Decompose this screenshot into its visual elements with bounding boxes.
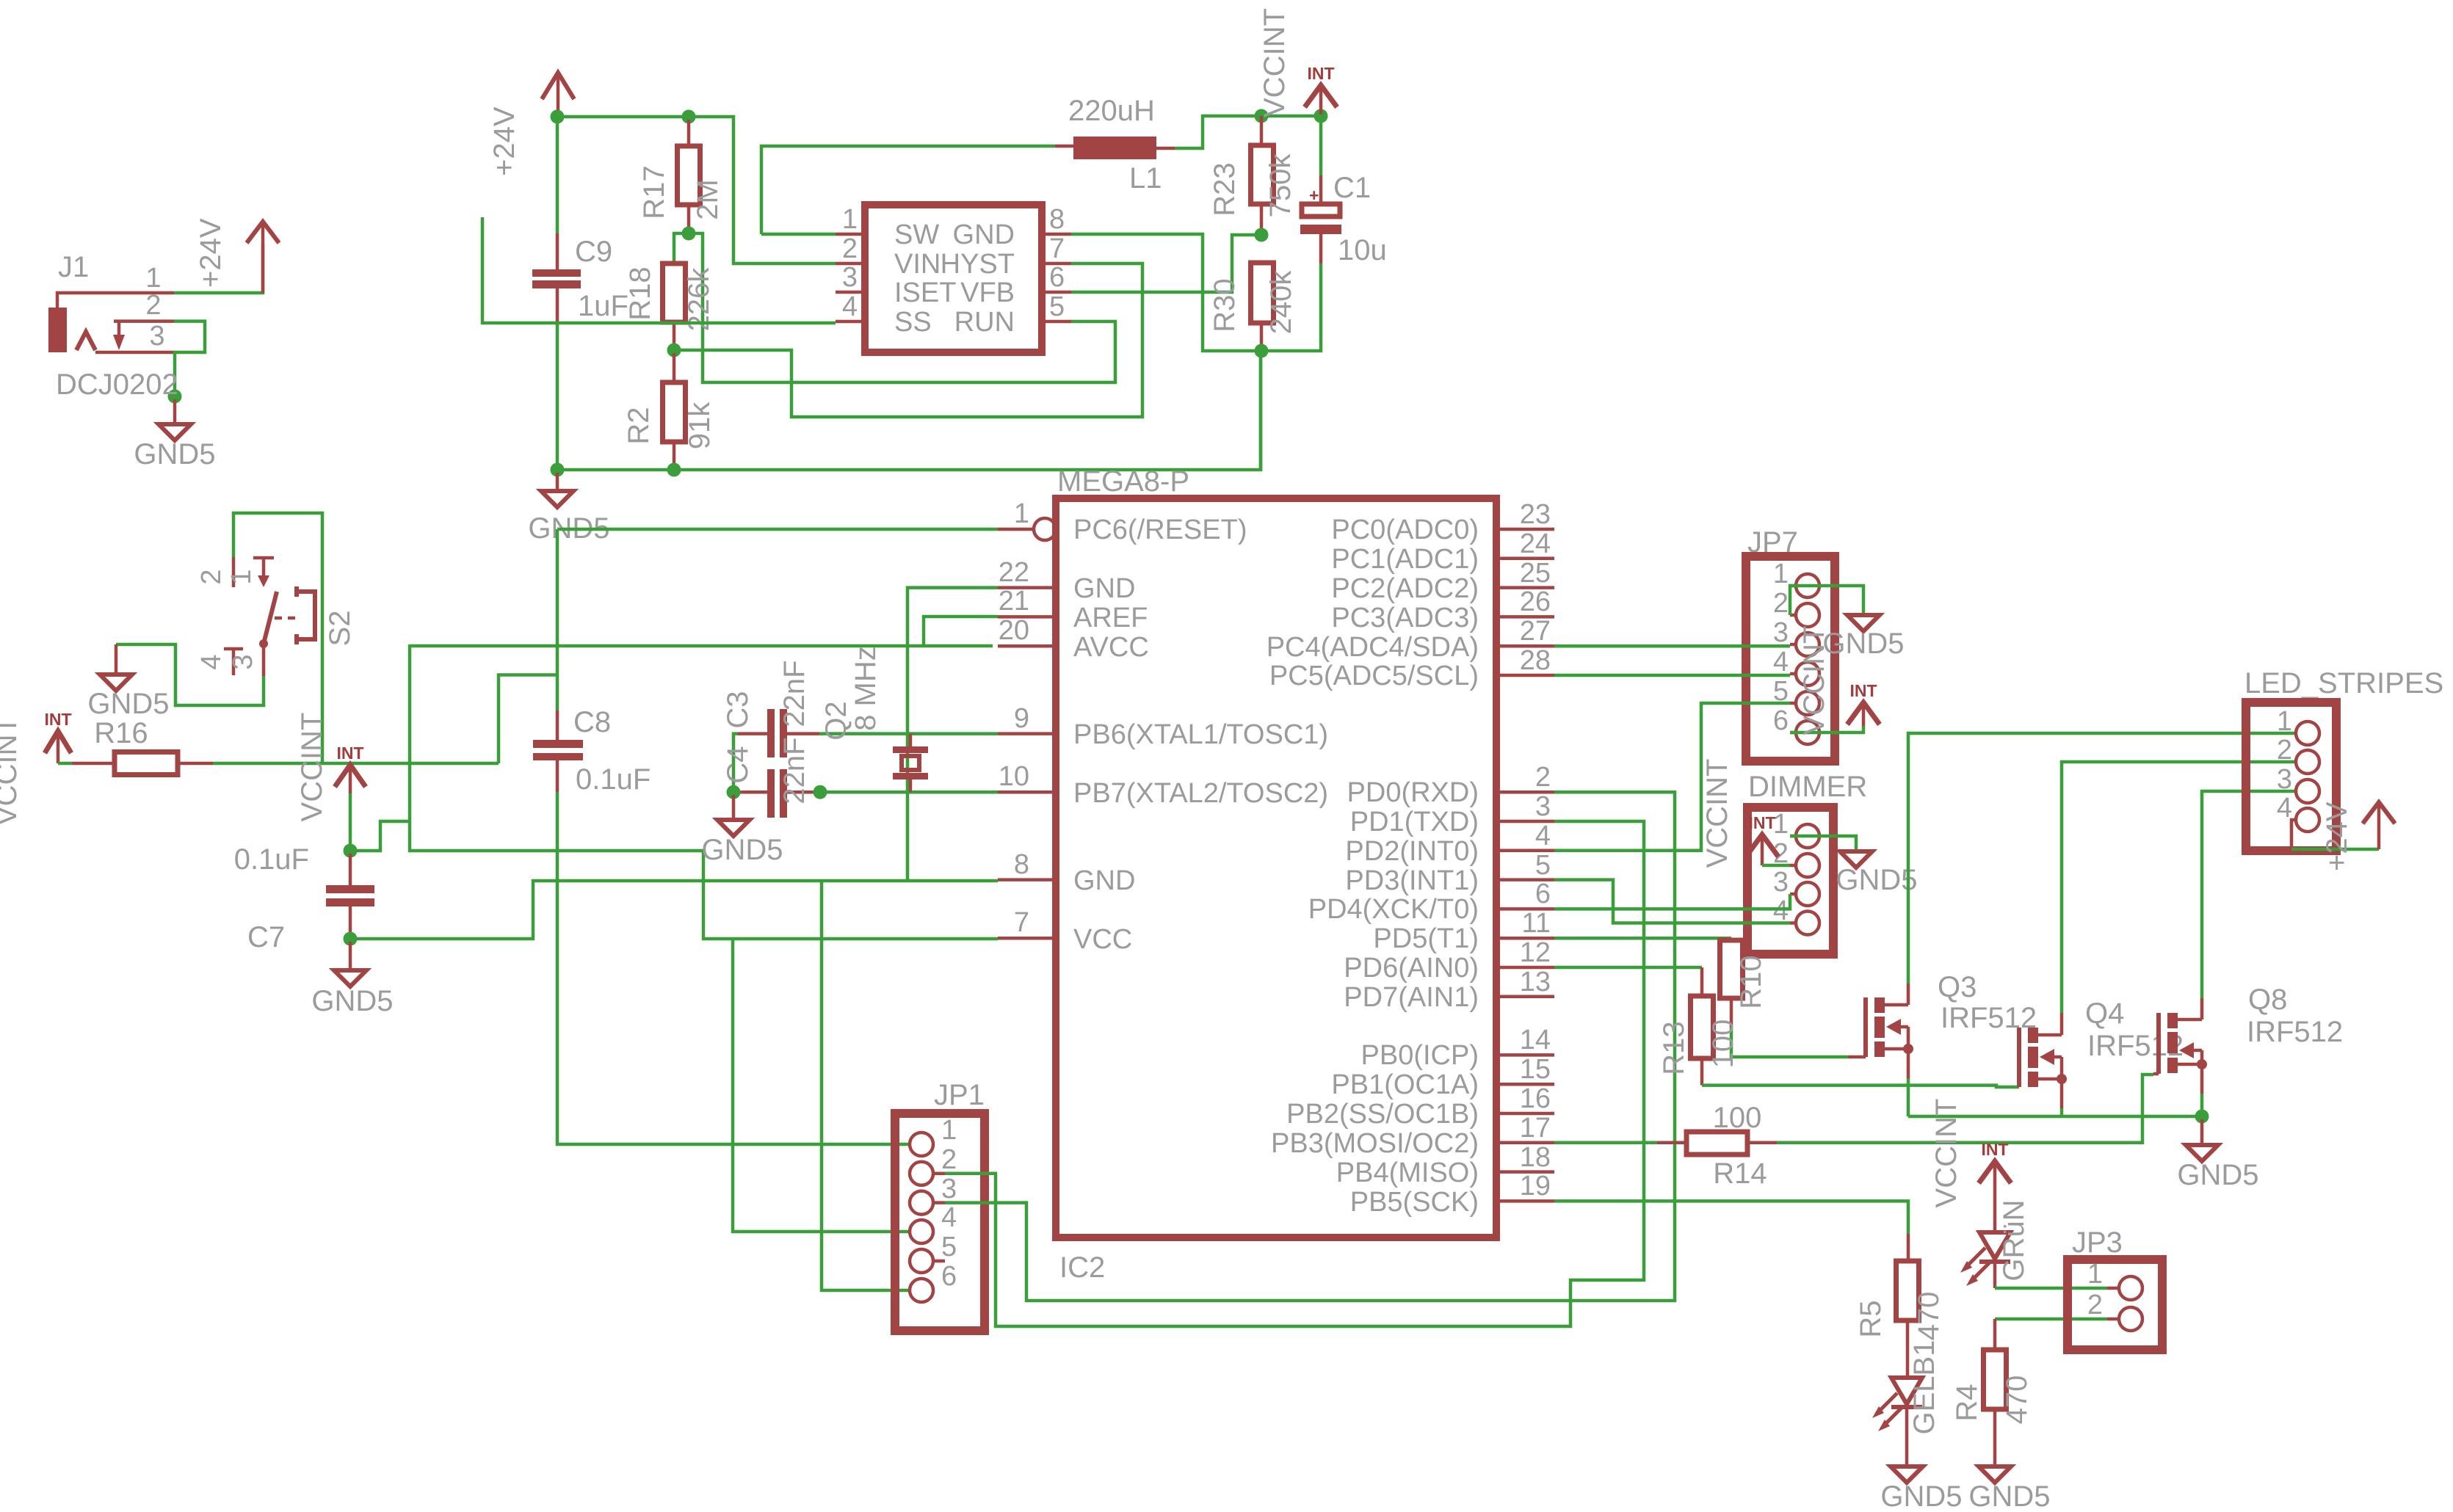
- wire DIMMER pin1 to GND5: [1790, 836, 1856, 851]
- pin 4 of DIMMER: [1796, 912, 1819, 935]
- node junction R30 bottom: [1255, 344, 1269, 358]
- svg-text:PD0(RXD): PD0(RXD): [1347, 777, 1479, 808]
- wire ground rail: [557, 351, 1261, 470]
- svg-text:PD4(XCK/T0): PD4(XCK/T0): [1308, 894, 1479, 925]
- svg-text:PB5(SCK): PB5(SCK): [1350, 1187, 1479, 1218]
- wire GND pin22 drop: [907, 588, 998, 881]
- svg-text:PD1(TXD): PD1(TXD): [1350, 807, 1479, 837]
- svg-text:9: 9: [1014, 703, 1029, 734]
- wire regulator gnd down to MEGA8 area: [1259, 354, 1263, 470]
- svg-text:2: 2: [1773, 588, 1789, 619]
- svg-text:470: 470: [1913, 1292, 1945, 1341]
- svg-text:R17: R17: [638, 165, 670, 219]
- regulator pin 8 GND: [1042, 233, 1071, 236]
- supply VCCINT (R16 left): [45, 731, 71, 753]
- regulator pin 6 VFB: [1042, 291, 1071, 294]
- svg-text:24: 24: [1520, 528, 1551, 559]
- connector DIMMER box: [1747, 807, 1833, 954]
- svg-text:470: 470: [2001, 1375, 2033, 1425]
- svg-text:C3: C3: [722, 691, 754, 728]
- svg-text:PB3(MOSI/OC2): PB3(MOSI/OC2): [1271, 1128, 1479, 1159]
- svg-text:C7: C7: [247, 921, 285, 953]
- supply VCCINT (GRUEN): [1979, 1161, 2011, 1183]
- pin 2 of LED_STRIPES: [2296, 750, 2319, 774]
- svg-text:VCCINT: VCCINT: [1930, 1099, 1963, 1208]
- svg-text:VCC: VCC: [1073, 924, 1132, 955]
- ground GND5 (GELB): [1891, 1466, 1923, 1483]
- node junction rail/C1: [1314, 109, 1328, 123]
- svg-text:6: 6: [1773, 705, 1789, 736]
- svg-text:IC2: IC2: [1059, 1251, 1105, 1284]
- ground GND5 (R4): [1979, 1466, 2011, 1483]
- wire pin2-pin3 loop: [174, 321, 205, 396]
- svg-text:1: 1: [941, 1115, 957, 1146]
- svg-text:240k: 240k: [1265, 270, 1297, 335]
- regulator pin 2 VIN: [836, 262, 865, 266]
- svg-text:22: 22: [999, 557, 1029, 588]
- svg-text:C4: C4: [722, 746, 754, 783]
- node junction GND: [2195, 1110, 2209, 1124]
- svg-text:IRF512: IRF512: [1941, 1002, 2037, 1034]
- wire Q4 drain to LED_STRIPES pin2: [2060, 1013, 2064, 1035]
- svg-text:12: 12: [1520, 937, 1551, 968]
- pin 2 of JP3: [2119, 1307, 2142, 1331]
- pin 12 PD6: [1496, 966, 1554, 970]
- ground GND5 (JP7): [1847, 615, 1880, 631]
- resistor R18: [663, 263, 686, 322]
- svg-text:2: 2: [1535, 762, 1551, 793]
- capacitor C1: [1319, 117, 1323, 175]
- wire C3 left down: [733, 734, 738, 793]
- transistor Q4 IRF512: [2017, 1028, 2021, 1087]
- svg-text:22nF: 22nF: [778, 660, 811, 727]
- capacitor C3: [738, 732, 767, 735]
- svg-text:R2: R2: [623, 407, 655, 444]
- pin 10 PB7: [998, 790, 1056, 794]
- pin 14 PB0: [1496, 1053, 1554, 1057]
- svg-text:2: 2: [941, 1144, 957, 1175]
- pin 1 of JP7: [1796, 574, 1819, 597]
- wire JP1 pin2 to PD1: [945, 821, 1644, 1326]
- svg-text:VCCINT: VCCINT: [1258, 8, 1291, 117]
- svg-text:INT: INT: [1849, 681, 1877, 700]
- svg-text:R23: R23: [1209, 162, 1241, 216]
- svg-text:L1: L1: [1129, 162, 1162, 195]
- svg-text:3: 3: [228, 654, 258, 669]
- svg-text:AREF: AREF: [1073, 603, 1148, 633]
- resistor R5: [1907, 1234, 1910, 1261]
- svg-text:GND: GND: [953, 219, 1015, 250]
- svg-text:GND5: GND5: [1968, 1480, 2050, 1512]
- pin 5 of JP7: [1796, 691, 1819, 715]
- svg-text:PC0(ADC0): PC0(ADC0): [1331, 515, 1479, 545]
- svg-text:0.1uF: 0.1uF: [234, 843, 309, 876]
- svg-text:2: 2: [2277, 735, 2292, 766]
- node junction rail/R17: [682, 110, 696, 124]
- pin 23 PC0: [1496, 528, 1554, 531]
- supply VCCINT (top): [1305, 85, 1337, 107]
- svg-text:GND5: GND5: [87, 688, 169, 720]
- svg-text:R5: R5: [1855, 1300, 1887, 1337]
- pin 15 PB1: [1496, 1083, 1554, 1086]
- svg-text:PB0(ICP): PB0(ICP): [1361, 1040, 1479, 1071]
- wire PD5 to R10: [1554, 937, 1731, 940]
- svg-text:6: 6: [941, 1261, 957, 1292]
- supply VCCINT (mid): [335, 765, 366, 787]
- wire PC6 net vertical: [556, 529, 559, 675]
- wire Q8 source to GND junction: [2200, 1064, 2204, 1094]
- svg-text:16: 16: [1520, 1083, 1551, 1114]
- svg-text:VCCINT: VCCINT: [1701, 759, 1733, 868]
- pin 2 PD0: [1496, 790, 1554, 794]
- pin 1 PC6 circle: [998, 528, 1034, 531]
- svg-text:+24V: +24V: [488, 106, 521, 176]
- svg-text:8: 8: [1014, 849, 1029, 880]
- svg-text:100: 100: [1713, 1102, 1762, 1134]
- svg-text:+24V: +24V: [2321, 802, 2353, 871]
- regulator pin 5 RUN: [1042, 320, 1071, 324]
- svg-text:R18: R18: [624, 266, 656, 320]
- resistor R23: [1260, 116, 1264, 145]
- svg-text:R10: R10: [1735, 955, 1767, 1008]
- svg-text:7: 7: [1049, 233, 1065, 264]
- wire R13 to Q4 gate: [1702, 1086, 2019, 1087]
- svg-text:DIMMER: DIMMER: [1748, 771, 1867, 803]
- svg-text:2: 2: [842, 233, 858, 264]
- ground GND5 (rail): [556, 473, 559, 491]
- J1 pin 2: [114, 319, 174, 323]
- svg-text:3: 3: [1535, 791, 1551, 822]
- resistor R16: [58, 762, 72, 766]
- svg-text:28: 28: [1520, 645, 1551, 676]
- pin 25 PC2: [1496, 586, 1554, 589]
- pin 5 PD3: [1496, 878, 1554, 882]
- pin 8 GND: [998, 878, 1056, 882]
- svg-text:GND: GND: [1073, 865, 1135, 896]
- IC U IC2 box: [1056, 498, 1496, 1237]
- svg-text:PC4(ADC4/SDA): PC4(ADC4/SDA): [1267, 632, 1479, 663]
- connector JP1 box: [895, 1113, 985, 1331]
- wire PD2 to JP7 pin5: [1554, 703, 1790, 851]
- svg-text:11: 11: [1522, 908, 1551, 939]
- svg-text:91k: 91k: [684, 401, 716, 449]
- wire JP1 pin3 to PD0: [945, 792, 1675, 1301]
- svg-text:3: 3: [149, 321, 164, 352]
- svg-text:PD3(INT1): PD3(INT1): [1345, 865, 1479, 896]
- node junction C4 right: [814, 785, 827, 799]
- pin 3 of DIMMER: [1796, 882, 1819, 906]
- regulator pin 7 HYST: [1042, 262, 1071, 266]
- pin 1 of LED_STRIPES: [2296, 722, 2319, 745]
- pin 4 of JP7: [1796, 662, 1819, 686]
- wire PB7 row: [816, 790, 998, 794]
- pin 6 of JP7: [1796, 721, 1819, 744]
- pin 2 of DIMMER: [1796, 854, 1819, 877]
- svg-text:+24V: +24V: [195, 218, 227, 288]
- svg-text:PB4(MISO): PB4(MISO): [1336, 1157, 1479, 1188]
- svg-text:SW: SW: [894, 219, 939, 250]
- supply +24V (C9 rail): [542, 73, 574, 99]
- svg-text:PC1(ADC1): PC1(ADC1): [1331, 544, 1479, 575]
- pin 9 PB6: [998, 732, 1056, 735]
- supply VCCINT (DIMMER pin2): [1746, 835, 1778, 857]
- svg-text:HYST: HYST: [941, 249, 1015, 280]
- svg-text:R13: R13: [1658, 1021, 1690, 1075]
- svg-text:8: 8: [1049, 204, 1065, 235]
- wire C9 bottom to ground rail: [556, 323, 559, 470]
- supply +24V (LED_STRIPES): [2363, 802, 2395, 824]
- pin 19 PB5: [1496, 1199, 1554, 1203]
- wire pin4 to +24V: [2291, 820, 2296, 849]
- svg-text:2M: 2M: [692, 179, 724, 220]
- pin 1 of JP3: [2119, 1276, 2142, 1300]
- svg-text:GND: GND: [1073, 573, 1135, 604]
- svg-text:4: 4: [842, 291, 858, 322]
- wire Q4 source to GND: [2060, 1079, 2064, 1108]
- node junction rail/R23: [1255, 109, 1269, 123]
- svg-text:GELB1: GELB1: [1908, 1340, 1941, 1435]
- svg-text:27: 27: [1520, 616, 1551, 647]
- svg-text:Q3: Q3: [1938, 971, 1976, 1003]
- svg-text:JP3: JP3: [2072, 1226, 2123, 1259]
- pin 6 PD4: [1496, 907, 1554, 911]
- wire Q3 source to GND: [1907, 1049, 1910, 1078]
- svg-text:10: 10: [999, 761, 1029, 792]
- svg-text:1: 1: [842, 204, 858, 235]
- wire VFB pin6: [1071, 235, 1261, 292]
- node junction C7 top: [344, 844, 358, 858]
- svg-text:GND5: GND5: [2177, 1159, 2258, 1191]
- pin 16 PB2: [1496, 1112, 1554, 1116]
- pin 5 of JP1: [910, 1249, 933, 1273]
- wire L1 to VCCINT rail: [1175, 116, 1321, 148]
- svg-text:19: 19: [1520, 1171, 1551, 1202]
- svg-text:INT: INT: [1748, 813, 1775, 832]
- wire GND bus: [1908, 1115, 2202, 1119]
- wire R18/R2 node to HYST: [674, 263, 1142, 417]
- svg-text:21: 21: [999, 586, 1029, 617]
- svg-text:PD6(AIN0): PD6(AIN0): [1344, 953, 1479, 984]
- svg-text:2: 2: [196, 569, 227, 584]
- svg-text:PD7(AIN1): PD7(AIN1): [1344, 982, 1479, 1013]
- wire PD4 to DIMMER pin3: [1554, 894, 1790, 909]
- capacitor C4: [738, 790, 767, 794]
- svg-text:1: 1: [145, 263, 161, 294]
- wire R17-R18 jog: [674, 233, 689, 263]
- svg-text:INT: INT: [44, 710, 71, 729]
- svg-text:2: 2: [2087, 1290, 2103, 1320]
- svg-text:2: 2: [145, 290, 161, 321]
- svg-text:R16: R16: [94, 717, 148, 749]
- wire PD6 to R13: [1554, 966, 1702, 970]
- wire R10 to Q3 gate: [1731, 1027, 1848, 1057]
- connector J1 body: [48, 308, 67, 352]
- svg-text:3: 3: [1773, 617, 1789, 648]
- supply +24V (J1): [247, 222, 279, 243]
- svg-text:JP1: JP1: [934, 1079, 985, 1111]
- svg-text:13: 13: [1520, 967, 1551, 997]
- capacitor C8: [556, 675, 559, 711]
- resistor R10: [1730, 938, 1733, 940]
- svg-text:VCCINT: VCCINT: [0, 716, 23, 826]
- svg-text:26: 26: [1520, 586, 1551, 617]
- supply VCCINT (JP7 pin6): [1790, 726, 1863, 733]
- pin 1 of JP1: [910, 1133, 933, 1156]
- regulator pin 1 SW: [836, 233, 865, 236]
- svg-text:VCCINT: VCCINT: [1798, 626, 1830, 735]
- regulator pin 3 ISET: [836, 291, 865, 294]
- pin 7 VCC: [998, 937, 1056, 940]
- pin 20 AVCC: [998, 644, 1056, 648]
- wire AREF jog: [924, 617, 998, 646]
- pin 6 of JP1: [910, 1279, 933, 1302]
- svg-text:GND5: GND5: [701, 834, 783, 866]
- wire JP7 pin1+2 to GND5: [1790, 586, 1863, 615]
- node junction gnd/R2: [667, 463, 681, 477]
- inductor L1: [1055, 145, 1073, 148]
- svg-text:R4: R4: [1951, 1384, 1983, 1421]
- transistor Q8 IRF512: [2156, 1013, 2161, 1074]
- wire +24V rail: [557, 117, 836, 263]
- pin 1 of DIMMER: [1796, 824, 1819, 848]
- wire AVCC column: [410, 644, 998, 939]
- svg-text:LED_STRIPES: LED_STRIPES: [2244, 667, 2443, 699]
- wire GND drop to JP1 pin6: [822, 881, 910, 1290]
- LED GRUEN: [1979, 1232, 2010, 1259]
- svg-text:PB7(XTAL2/TOSC2): PB7(XTAL2/TOSC2): [1073, 778, 1328, 809]
- node junction C3/C4 left: [727, 785, 741, 799]
- pin 21 AREF: [998, 615, 1056, 619]
- pin 27 PC4: [1496, 644, 1554, 648]
- node junction rail/C9: [551, 110, 565, 124]
- J1 pin 1: [57, 293, 174, 309]
- svg-text:PC6(/RESET): PC6(/RESET): [1073, 515, 1247, 545]
- svg-text:PD2(INT0): PD2(INT0): [1345, 836, 1479, 867]
- svg-text:5: 5: [1535, 850, 1551, 881]
- svg-text:23: 23: [1520, 499, 1551, 530]
- pin 4 of LED_STRIPES: [2296, 808, 2319, 832]
- pin 13 PD7: [1496, 995, 1554, 999]
- svg-text:25: 25: [1520, 558, 1551, 589]
- wire PB3 to R14: [1554, 1141, 1657, 1145]
- wire PC4 to JP7 pin3: [1554, 644, 1790, 648]
- ground GND5 (C7): [349, 942, 352, 970]
- svg-text:GRüN: GRüN: [1998, 1199, 2030, 1281]
- svg-text:S2: S2: [324, 611, 356, 647]
- capacitor C7: [349, 854, 352, 885]
- svg-text:GND5: GND5: [134, 438, 215, 470]
- svg-text:4: 4: [941, 1202, 957, 1233]
- svg-text:10u: 10u: [1338, 234, 1387, 266]
- resistor R14: [1657, 1141, 1686, 1145]
- svg-text:PB1(OC1A): PB1(OC1A): [1331, 1069, 1479, 1100]
- svg-text:INT: INT: [336, 744, 363, 763]
- resistor R4: [1984, 1350, 2007, 1409]
- resistor R17: [687, 120, 691, 146]
- wire C9 top: [556, 120, 559, 233]
- svg-text:1: 1: [2087, 1259, 2103, 1290]
- svg-text:PB6(XTAL1/TOSC1): PB6(XTAL1/TOSC1): [1073, 719, 1328, 750]
- wire antenna stub SS: [482, 217, 836, 323]
- wire C8 bottom to JP1 pin1: [557, 792, 910, 1144]
- wire VCCINT down to C7 node: [349, 793, 352, 851]
- svg-text:SS: SS: [894, 307, 932, 338]
- J1 tip contact chevron: [76, 332, 95, 350]
- svg-text:PD5(T1): PD5(T1): [1373, 923, 1479, 954]
- svg-text:15: 15: [1520, 1054, 1551, 1085]
- svg-text:1: 1: [2277, 706, 2292, 737]
- wire VCCINT jog to AVCC/VCC column: [350, 821, 410, 851]
- svg-text:R14: R14: [1713, 1157, 1767, 1190]
- pin 4 of JP1: [910, 1220, 933, 1243]
- svg-text:4: 4: [1773, 647, 1789, 677]
- svg-text:AVCC: AVCC: [1073, 632, 1149, 663]
- svg-text:GND5: GND5: [1836, 864, 1917, 896]
- pin 3 PD1: [1496, 820, 1554, 824]
- J1 switch contact arrow: [117, 321, 121, 335]
- svg-text:14: 14: [1520, 1025, 1551, 1055]
- wire GND net C7 to pin8: [350, 881, 998, 939]
- svg-text:5: 5: [1049, 291, 1065, 322]
- resistor R2: [673, 353, 676, 382]
- pin 18 PB4: [1496, 1170, 1554, 1174]
- pin 11 PD5: [1496, 937, 1554, 940]
- svg-text:4: 4: [1535, 821, 1551, 851]
- wire Q3 drain to LED_STRIPES pin1: [1907, 984, 1910, 1005]
- ground GND5 (C4): [732, 795, 736, 820]
- svg-text:PC2(ADC2): PC2(ADC2): [1331, 573, 1479, 604]
- svg-text:Q4: Q4: [2085, 997, 2124, 1030]
- regulator IC box: [865, 205, 1042, 352]
- wire GRUEN to JP3 pin1: [1995, 1287, 2107, 1290]
- wire feedback to RUN: [689, 233, 1115, 382]
- svg-text:22nF: 22nF: [778, 737, 811, 804]
- wire JP3 pin2 to R4: [1995, 1317, 2107, 1321]
- pin 24 PC1: [1496, 557, 1554, 561]
- wire pin1 to +24V: [174, 244, 263, 293]
- svg-text:GND5: GND5: [1822, 628, 1904, 660]
- svg-text:INT: INT: [1307, 64, 1334, 83]
- svg-text:0.1uF: 0.1uF: [576, 763, 651, 796]
- capacitor C9: [556, 233, 559, 269]
- svg-text:6: 6: [1535, 879, 1551, 909]
- connector JP7 box: [1746, 556, 1835, 761]
- wire R30 bottom to C1 bottom: [1261, 263, 1321, 351]
- ground GND5 (Q8): [2200, 1119, 2204, 1145]
- LED GELB1: [1906, 1320, 1910, 1378]
- pin 22 GND: [998, 586, 1056, 589]
- svg-text:100: 100: [1707, 1019, 1739, 1069]
- wire PB6 row: [819, 732, 998, 735]
- node junction gnd/C9: [551, 463, 565, 477]
- wire GND pin8 to divider: [1071, 234, 1258, 351]
- wire S2 pin3 to GND5: [116, 644, 264, 705]
- svg-text:Q8: Q8: [2248, 984, 2287, 1016]
- pin 2 of JP1: [910, 1162, 933, 1185]
- pin 4 PD2: [1496, 849, 1554, 853]
- svg-text:RUN: RUN: [954, 307, 1015, 338]
- svg-text:VIN: VIN: [894, 249, 941, 280]
- pin 3 of LED_STRIPES: [2296, 779, 2319, 803]
- svg-text:750k: 750k: [1264, 153, 1297, 218]
- svg-text:DCJ0202: DCJ0202: [56, 368, 178, 401]
- wire R16 to reset node: [213, 762, 499, 766]
- svg-text:C1: C1: [1333, 172, 1371, 204]
- svg-text:GND5: GND5: [1880, 1480, 1962, 1512]
- regulator pin 4 SS: [836, 320, 865, 324]
- ground GND5 (S2): [115, 644, 118, 675]
- pin 28 PC5: [1496, 674, 1554, 677]
